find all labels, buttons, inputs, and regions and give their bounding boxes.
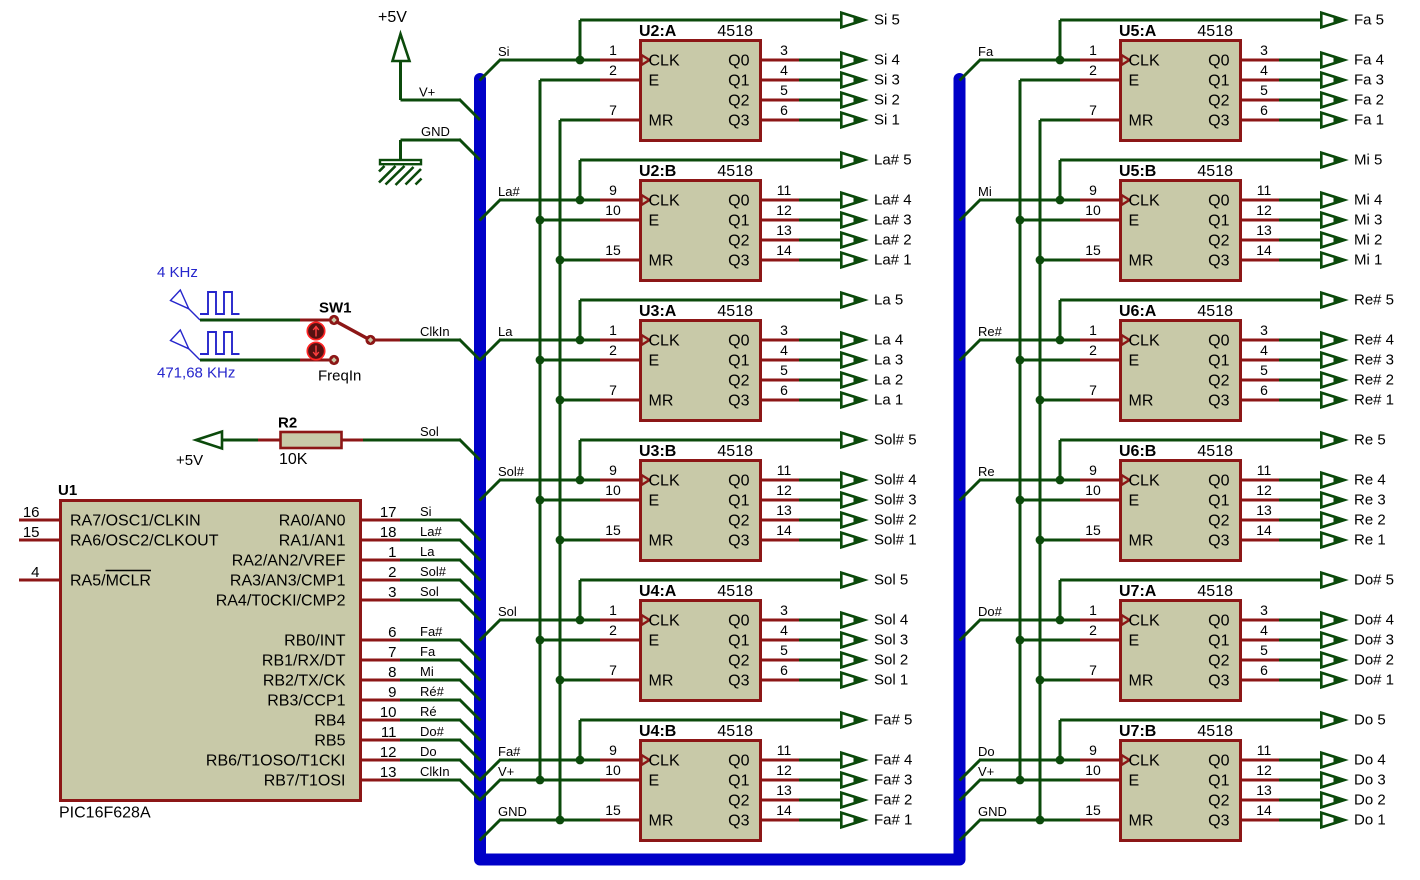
svg-text:15: 15 (1085, 522, 1101, 538)
wire U3:B CLK branch to output 5 (580, 440, 840, 480)
output terminal Do 3 (1321, 773, 1347, 788)
wire U5:B Q1 to terminal (1279, 219, 1320, 222)
svg-text:6: 6 (780, 382, 788, 398)
counter U3:A (4518) (600, 303, 800, 421)
wire U6:A Q3 to terminal (1279, 399, 1320, 402)
output terminal Si 1 (841, 113, 867, 128)
svg-text:GND: GND (978, 804, 1007, 819)
junction U7:B CLK (1056, 756, 1065, 765)
wire Fa# from U1 to bus (400, 640, 481, 661)
svg-text:Q3: Q3 (728, 533, 749, 550)
svg-text:MR: MR (1129, 113, 1154, 130)
junction U4:B E (536, 776, 545, 785)
svg-text:4: 4 (1260, 622, 1268, 638)
svg-text:Q2: Q2 (1208, 653, 1229, 670)
svg-text:Q0: Q0 (728, 473, 749, 490)
svg-text:La 1: La 1 (874, 392, 903, 409)
wire V+ to U2:B E (540, 219, 600, 222)
svg-text:Q1: Q1 (1208, 213, 1229, 230)
U1 pin 11 (RB5) (314, 724, 400, 750)
svg-text:6: 6 (780, 662, 788, 678)
svg-text:U4:B: U4:B (639, 723, 676, 740)
svg-text:Re 2: Re 2 (1354, 512, 1386, 529)
svg-text:Sol# 3: Sol# 3 (874, 492, 917, 509)
svg-text:1: 1 (609, 602, 617, 618)
svg-text:13: 13 (1256, 222, 1272, 238)
svg-text:Sol: Sol (498, 604, 517, 619)
U1 pin 13 (RB7/T1OSI) (264, 764, 400, 790)
wire U7:A Q2 to terminal (1279, 659, 1320, 662)
svg-text:11: 11 (1257, 182, 1272, 198)
svg-text:11: 11 (1257, 742, 1272, 758)
svg-text:Fa 3: Fa 3 (1354, 72, 1384, 89)
wire U6:B Q0 to terminal (1279, 479, 1320, 482)
svg-text:3: 3 (1260, 42, 1268, 58)
svg-text:9: 9 (1089, 742, 1097, 758)
svg-text:MR: MR (1129, 813, 1154, 830)
wire GND to bus (401, 139, 481, 160)
wire Do from U1 to bus (400, 760, 481, 781)
junction U2:A CLK (576, 56, 585, 65)
svg-text:La# 1: La# 1 (874, 252, 912, 269)
svg-text:Sol 1: Sol 1 (874, 672, 908, 689)
U1 pin 4 (RA5/MCLR) (19, 564, 151, 590)
svg-text:La 2: La 2 (874, 372, 903, 389)
counter U6:B (4518) (1080, 443, 1280, 561)
output terminal Re# 3 (1321, 353, 1347, 368)
svg-text:7: 7 (609, 662, 617, 678)
output terminal Fa 2 (1321, 93, 1347, 108)
svg-text:Fa# 5: Fa# 5 (874, 712, 912, 729)
svg-text:5: 5 (1260, 642, 1268, 658)
svg-text:Q3: Q3 (1208, 113, 1229, 130)
svg-text:Q3: Q3 (1208, 253, 1229, 270)
svg-text:Q2: Q2 (728, 233, 749, 250)
svg-text:La# 4: La# 4 (874, 192, 912, 209)
wire Mi from bus to U5:B CLK (960, 200, 1081, 221)
svg-text:Q1: Q1 (1208, 493, 1229, 510)
svg-text:Re# 4: Re# 4 (1354, 332, 1394, 349)
output terminal Sol 2 (841, 653, 867, 668)
svg-text:MR: MR (649, 113, 674, 130)
svg-text:Q0: Q0 (1208, 613, 1229, 630)
svg-text:2: 2 (609, 342, 617, 358)
output terminal La# 5 (841, 153, 867, 168)
wire U6:B Q2 to terminal (1279, 519, 1320, 522)
output terminal Fa# 5 (841, 713, 867, 728)
wire GND to U3:B MR (560, 539, 600, 542)
svg-text:7: 7 (388, 644, 396, 661)
junction U4:A CLK (576, 616, 585, 625)
svg-text:9: 9 (609, 462, 617, 478)
svg-text:Do 2: Do 2 (1354, 792, 1386, 809)
output terminal Mi 5 (1321, 153, 1347, 168)
wire GND to U2:B MR (560, 259, 600, 262)
svg-text:4518: 4518 (1197, 303, 1233, 320)
svg-text:U3:B: U3:B (639, 443, 676, 460)
junction U2:B E (536, 216, 545, 225)
output terminal Fa 4 (1321, 53, 1347, 68)
U1 pin 8 (RB2/TX/CK) (263, 664, 400, 690)
wire Re# from bus to U6:A CLK (960, 340, 1081, 361)
svg-text:Fa: Fa (420, 644, 436, 659)
power terminal +5V (top) (378, 9, 410, 100)
wire V+ from bus to U4:B E (480, 780, 601, 801)
svg-text:MR: MR (1129, 253, 1154, 270)
svg-text:12: 12 (776, 762, 792, 778)
svg-text:Re 5: Re 5 (1354, 432, 1386, 449)
wire GND to U6:B MR (1040, 539, 1080, 542)
counter U6:A (4518) (1080, 303, 1280, 421)
svg-text:11: 11 (777, 742, 792, 758)
output terminal Fa# 3 (841, 773, 867, 788)
svg-text:CLK: CLK (1129, 193, 1160, 210)
svg-text:Fa: Fa (978, 44, 994, 59)
wire U2:B Q3 to terminal (799, 259, 840, 262)
svg-text:Do 5: Do 5 (1354, 712, 1386, 729)
svg-text:12: 12 (1256, 762, 1272, 778)
wire U3:B Q1 to terminal (799, 499, 840, 502)
svg-text:+5V: +5V (176, 452, 203, 469)
svg-text:1: 1 (1089, 322, 1097, 338)
svg-text:6: 6 (388, 624, 396, 641)
svg-text:14: 14 (1256, 802, 1272, 818)
svg-text:+5V: +5V (378, 9, 407, 26)
svg-text:11: 11 (381, 724, 397, 741)
wire V+ to U6:B E (1020, 499, 1080, 502)
wire U2:A Q1 to terminal (799, 79, 840, 82)
output terminal La# 1 (841, 253, 867, 268)
output terminal Fa 1 (1321, 113, 1347, 128)
wire Do# from U1 to bus (400, 740, 481, 761)
svg-text:9: 9 (609, 182, 617, 198)
svg-text:1: 1 (1089, 42, 1097, 58)
svg-text:Do# 5: Do# 5 (1354, 572, 1394, 589)
svg-text:9: 9 (609, 742, 617, 758)
svg-text:4518: 4518 (1197, 443, 1233, 460)
wire V+ to U6:A E (1020, 359, 1080, 362)
svg-text:ClkIn: ClkIn (420, 324, 450, 339)
output terminal Sol# 1 (841, 533, 867, 548)
svg-text:Sol# 5: Sol# 5 (874, 432, 917, 449)
svg-text:RB6/T1OSO/T1CKI: RB6/T1OSO/T1CKI (206, 753, 346, 770)
svg-text:4: 4 (1260, 62, 1268, 78)
svg-text:Q1: Q1 (728, 773, 749, 790)
wire ClkIn from U1 to bus (400, 780, 481, 801)
svg-text:12: 12 (380, 744, 397, 761)
svg-text:Q2: Q2 (1208, 93, 1229, 110)
svg-text:Fa 1: Fa 1 (1354, 112, 1384, 129)
svg-text:CLK: CLK (1129, 613, 1160, 630)
svg-text:15: 15 (1085, 802, 1101, 818)
wire U4:B Q1 to terminal (799, 779, 840, 782)
svg-text:U4:A: U4:A (639, 583, 677, 600)
svg-text:GND: GND (498, 804, 527, 819)
wire U2:A CLK branch to output 5 (580, 20, 840, 60)
svg-text:Q3: Q3 (728, 813, 749, 830)
svg-text:17: 17 (380, 504, 397, 521)
junction U7:A CLK (1056, 616, 1065, 625)
svg-text:La: La (498, 324, 513, 339)
wire U7:B Q2 to terminal (1279, 799, 1320, 802)
junction U5:B CLK (1056, 196, 1065, 205)
svg-text:9: 9 (1089, 462, 1097, 478)
svg-text:U2:A: U2:A (639, 23, 677, 40)
U1 pin 18 (RA1/AN1) (279, 524, 400, 550)
svg-text:Re 1: Re 1 (1354, 532, 1386, 549)
svg-text:4: 4 (780, 622, 788, 638)
svg-text:Do# 1: Do# 1 (1354, 672, 1394, 689)
output terminal La 1 (841, 393, 867, 408)
svg-text:E: E (1129, 773, 1140, 790)
svg-text:Ré#: Ré# (420, 684, 445, 699)
wire 471,68KHz generator to SW1 (200, 359, 329, 362)
svg-text:3: 3 (388, 584, 396, 601)
svg-text:4518: 4518 (1197, 23, 1233, 40)
svg-text:Q2: Q2 (728, 653, 749, 670)
svg-text:V+: V+ (498, 764, 514, 779)
svg-text:Sol# 2: Sol# 2 (874, 512, 917, 529)
junction U7:A MR (1036, 676, 1045, 685)
svg-text:Fa# 1: Fa# 1 (874, 812, 912, 829)
wire U5:B Q0 to terminal (1279, 199, 1320, 202)
microcontroller U1 box (61, 501, 361, 801)
svg-text:Mi: Mi (978, 184, 992, 199)
output terminal Do# 3 (1321, 633, 1347, 648)
wire La# from U1 to bus (400, 540, 481, 561)
svg-text:7: 7 (1089, 382, 1097, 398)
svg-text:Fa# 4: Fa# 4 (874, 752, 912, 769)
svg-text:La: La (420, 544, 435, 559)
U1 pin 9 (RB3/CCP1) (267, 684, 400, 710)
svg-text:RA4/T0CKI/CMP2: RA4/T0CKI/CMP2 (216, 593, 346, 610)
output terminal Sol 3 (841, 633, 867, 648)
svg-text:11: 11 (777, 182, 792, 198)
svg-text:16: 16 (23, 504, 40, 521)
svg-text:15: 15 (605, 522, 621, 538)
switch SW1 (329, 315, 400, 365)
output terminal Mi 1 (1321, 253, 1347, 268)
svg-text:Fa#: Fa# (420, 624, 443, 639)
svg-text:4 KHz: 4 KHz (157, 264, 198, 281)
svg-text:Sol# 1: Sol# 1 (874, 532, 917, 549)
svg-text:2: 2 (609, 622, 617, 638)
svg-text:Si 4: Si 4 (874, 52, 900, 69)
wire U2:B Q2 to terminal (799, 239, 840, 242)
svg-text:RB0/INT: RB0/INT (284, 633, 346, 650)
wire U2:A Q0 to terminal (799, 59, 840, 62)
svg-text:Q0: Q0 (728, 753, 749, 770)
wire U6:B Q3 to terminal (1279, 539, 1320, 542)
svg-text:La# 5: La# 5 (874, 152, 912, 169)
svg-text:Q3: Q3 (728, 253, 749, 270)
svg-text:PIC16F628A: PIC16F628A (59, 805, 151, 822)
svg-text:4518: 4518 (717, 723, 753, 740)
wire U3:A Q3 to terminal (799, 399, 840, 402)
wire U6:B Q1 to terminal (1279, 499, 1320, 502)
svg-text:4: 4 (31, 564, 39, 581)
svg-text:4518: 4518 (717, 303, 753, 320)
svg-text:Fa 5: Fa 5 (1354, 12, 1384, 29)
wire U3:A CLK branch to output 5 (580, 300, 840, 340)
svg-text:12: 12 (776, 482, 792, 498)
svg-text:MR: MR (649, 253, 674, 270)
svg-text:Q0: Q0 (1208, 53, 1229, 70)
wire Sol# from U1 to bus (400, 580, 481, 601)
junction U3:A MR (556, 396, 565, 405)
U1 pin 3 (RA4/T0CKI/CMP2) (216, 584, 400, 610)
output terminal La# 4 (841, 193, 867, 208)
output terminal Sol# 2 (841, 513, 867, 528)
wire U5:A Q0 to terminal (1279, 59, 1320, 62)
svg-text:Mi 3: Mi 3 (1354, 212, 1382, 229)
svg-text:Fa# 3: Fa# 3 (874, 772, 912, 789)
svg-text:Do 4: Do 4 (1354, 752, 1386, 769)
junction U4:A E (536, 636, 545, 645)
svg-text:CLK: CLK (649, 473, 680, 490)
svg-text:Do: Do (978, 744, 995, 759)
junction U6:B CLK (1056, 476, 1065, 485)
counter U2:A (4518) (600, 23, 800, 141)
svg-text:U2:B: U2:B (639, 163, 676, 180)
svg-text:15: 15 (1085, 242, 1101, 258)
svg-text:Re 3: Re 3 (1354, 492, 1386, 509)
svg-text:Q2: Q2 (728, 513, 749, 530)
svg-text:7: 7 (1089, 662, 1097, 678)
output terminal Do# 5 (1321, 573, 1347, 588)
output terminal Re# 5 (1321, 293, 1347, 308)
svg-text:U1: U1 (58, 482, 77, 499)
svg-text:10: 10 (605, 482, 621, 498)
svg-text:RB7/T1OSI: RB7/T1OSI (264, 773, 346, 790)
svg-text:Re# 3: Re# 3 (1354, 352, 1394, 369)
svg-text:E: E (1129, 493, 1140, 510)
svg-text:Sol 2: Sol 2 (874, 652, 908, 669)
svg-text:Mi: Mi (420, 664, 434, 679)
wire GND to U5:B MR (1040, 259, 1080, 262)
wire Sol# from bus to U3:B CLK (480, 480, 601, 501)
wire V+ to U7:A E (1020, 639, 1080, 642)
wire U5:B Q3 to terminal (1279, 259, 1320, 262)
svg-text:Q3: Q3 (728, 113, 749, 130)
U1 pin 15 (RA6/OSC2/CLKOUT) (19, 524, 219, 550)
svg-text:14: 14 (776, 522, 792, 538)
svg-text:Q0: Q0 (1208, 473, 1229, 490)
svg-text:CLK: CLK (649, 753, 680, 770)
svg-text:3: 3 (1260, 602, 1268, 618)
svg-text:Q2: Q2 (728, 793, 749, 810)
wire U4:A Q3 to terminal (799, 679, 840, 682)
output terminal Fa# 2 (841, 793, 867, 808)
wire U7:A CLK branch to output 5 (1060, 580, 1320, 620)
svg-text:MR: MR (1129, 673, 1154, 690)
wire V+ to U3:A E (540, 359, 600, 362)
svg-text:7: 7 (609, 382, 617, 398)
wire U3:A Q0 to terminal (799, 339, 840, 342)
svg-text:E: E (1129, 213, 1140, 230)
wire GND to U2:A MR (560, 119, 600, 122)
output terminal Fa 5 (1321, 13, 1347, 28)
svg-text:Sol 4: Sol 4 (874, 612, 908, 629)
wire U3:B Q0 to terminal (799, 479, 840, 482)
wire V+ from +5V to bus (401, 99, 481, 120)
svg-text:CLK: CLK (1129, 753, 1160, 770)
svg-text:Si 3: Si 3 (874, 72, 900, 89)
wire U4:A CLK branch to output 5 (580, 580, 840, 620)
svg-text:5: 5 (780, 362, 788, 378)
svg-text:E: E (1129, 353, 1140, 370)
svg-text:RA7/OSC1/CLKIN: RA7/OSC1/CLKIN (70, 513, 201, 530)
svg-text:CLK: CLK (1129, 333, 1160, 350)
wire U4:B Q2 to terminal (799, 799, 840, 802)
counter U5:A (4518) (1080, 23, 1280, 141)
wire U7:A Q3 to terminal (1279, 679, 1320, 682)
wire U4:A Q1 to terminal (799, 639, 840, 642)
svg-text:V+: V+ (419, 85, 435, 100)
U1 pin 12 (RB6/T1OSO/T1CKI) (206, 744, 400, 770)
svg-text:Q1: Q1 (728, 73, 749, 90)
junction U6:A CLK (1056, 336, 1065, 345)
output terminal Do 2 (1321, 793, 1347, 808)
svg-text:Do# 3: Do# 3 (1354, 632, 1394, 649)
svg-text:GND: GND (421, 124, 450, 139)
svg-text:6: 6 (1260, 662, 1268, 678)
svg-text:6: 6 (1260, 382, 1268, 398)
svg-text:Do# 4: Do# 4 (1354, 612, 1394, 629)
svg-text:Q0: Q0 (1208, 333, 1229, 350)
svg-text:Q2: Q2 (728, 373, 749, 390)
output terminal Re 5 (1321, 433, 1347, 448)
wire U7:B Q0 to terminal (1279, 759, 1320, 762)
wire U5:A Q2 to terminal (1279, 99, 1320, 102)
svg-text:Si 2: Si 2 (874, 92, 900, 109)
junction U6:B MR (1036, 536, 1045, 545)
svg-text:13: 13 (1256, 782, 1272, 798)
svg-text:Do 3: Do 3 (1354, 772, 1386, 789)
svg-text:MR: MR (649, 673, 674, 690)
wire Fa from bus to U5:A CLK (960, 60, 1081, 81)
wire U4:B CLK branch to output 5 (580, 720, 840, 760)
svg-text:Q2: Q2 (728, 93, 749, 110)
svg-text:E: E (649, 633, 660, 650)
svg-text:Q2: Q2 (1208, 373, 1229, 390)
svg-text:14: 14 (1256, 242, 1272, 258)
svg-text:10: 10 (605, 762, 621, 778)
svg-text:Re# 1: Re# 1 (1354, 392, 1394, 409)
U1 pin 6 (RB0/INT) (284, 624, 400, 650)
svg-text:Q1: Q1 (728, 353, 749, 370)
svg-text:Sol 5: Sol 5 (874, 572, 908, 589)
svg-text:7: 7 (1089, 102, 1097, 118)
svg-text:4518: 4518 (717, 163, 753, 180)
svg-text:4518: 4518 (1197, 723, 1233, 740)
svg-text:9: 9 (1089, 182, 1097, 198)
junction U7:B MR (1036, 816, 1045, 825)
svg-text:Ré: Ré (420, 704, 437, 719)
svg-text:E: E (649, 353, 660, 370)
svg-text:Re 4: Re 4 (1354, 472, 1386, 489)
svg-text:2: 2 (388, 564, 396, 581)
svg-text:Fa 2: Fa 2 (1354, 92, 1384, 109)
wire U4:A Q2 to terminal (799, 659, 840, 662)
output terminal Sol# 5 (841, 433, 867, 448)
svg-text:Do#: Do# (420, 724, 445, 739)
svg-text:E: E (1129, 73, 1140, 90)
output terminal Sol 4 (841, 613, 867, 628)
svg-text:U3:A: U3:A (639, 303, 677, 320)
svg-text:CLK: CLK (649, 193, 680, 210)
svg-text:Q1: Q1 (728, 633, 749, 650)
